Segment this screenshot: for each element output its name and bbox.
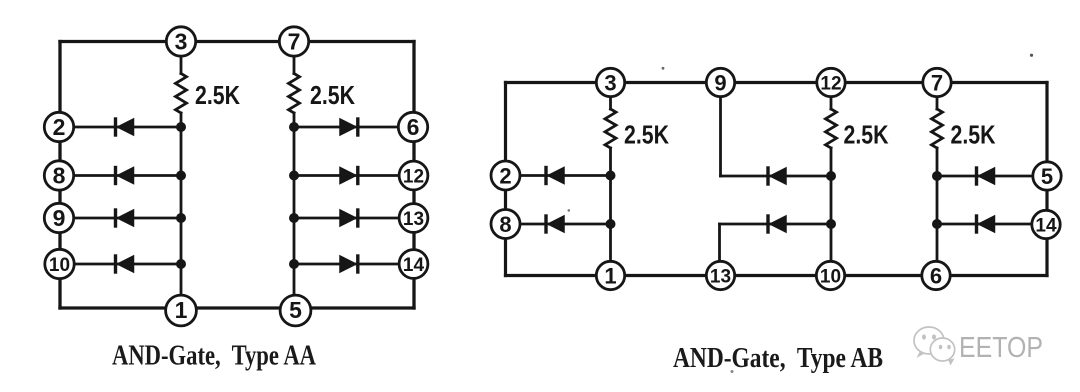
svg-text:3: 3: [175, 29, 188, 55]
wire: AA row pin13: [294, 217, 412, 220]
wire: AB row pin13: [720, 223, 832, 226]
wire: AA row pin2: [62, 126, 181, 129]
wire: AB row pin2: [507, 174, 611, 177]
svg-text:1: 1: [604, 264, 616, 289]
node pin 1 (AA): [166, 295, 197, 326]
svg-text:1: 1: [175, 297, 188, 323]
wire: AB bus pin7 to pin6: [936, 148, 939, 276]
node pin 14 (AA): [399, 250, 428, 279]
wire: AB row pin14: [937, 223, 1045, 226]
wire: AB left edge: [504, 83, 507, 276]
resistor 2.5K (AB left): [605, 109, 616, 148]
wire: AA row pin12: [294, 174, 412, 177]
resistor 2.5K (AA right): [289, 74, 300, 114]
diode input pin 5 (AB): [977, 168, 995, 184]
node pin 6 (AA): [398, 112, 427, 141]
diode input pin 8: [116, 168, 134, 184]
svg-text:2: 2: [53, 114, 66, 140]
node pin 5 (AB): [1033, 162, 1061, 190]
node pin 9 (AB): [706, 68, 734, 96]
svg-text:9: 9: [53, 205, 66, 231]
diode input pin 8 (AB): [546, 216, 564, 232]
svg-text:5: 5: [289, 297, 302, 323]
svg-text:AND-Gate, Type AB: AND-Gate, Type AB: [673, 343, 883, 374]
node pin 10 (AA): [45, 249, 74, 278]
svg-text:AND-Gate, Type AA: AND-Gate, Type AA: [112, 341, 317, 372]
scan speck top right: [1030, 54, 1033, 57]
diode input pin 12: [340, 168, 358, 184]
svg-text:10: 10: [820, 267, 841, 288]
diode input pin 9: [116, 210, 134, 226]
node pin 14 (AB): [1032, 210, 1060, 238]
diode input pin 14 (AB): [977, 216, 995, 232]
svg-text:8: 8: [499, 212, 511, 237]
watermark: EETOP wechat logo: [914, 327, 955, 366]
scan speck mid top: [662, 67, 665, 70]
wire: AA left edge: [58, 42, 61, 309]
svg-text:10: 10: [49, 255, 70, 276]
junction dots AA left bus: [176, 122, 186, 269]
wire: AB row pin5: [937, 175, 1045, 178]
svg-text:8: 8: [53, 163, 66, 189]
junction dots AA right bus: [289, 122, 299, 269]
node pin 12 (AB): [817, 68, 845, 96]
svg-text:6: 6: [407, 114, 420, 140]
wire: AB bus pin7 upper stub: [936, 83, 939, 110]
junction dots AB bus 12: [826, 171, 836, 229]
svg-text:EETOP: EETOP: [959, 332, 1043, 364]
wire: AA row pin8: [62, 174, 181, 177]
node pin 9 (AA): [44, 203, 73, 232]
diode input pin 2: [116, 119, 134, 135]
diode input pin 13: [340, 210, 358, 226]
wire: AB pin9 drop: [719, 83, 722, 177]
wire: AB right edge: [1045, 83, 1048, 276]
svg-text:14: 14: [403, 255, 425, 276]
wire: AA bus below right resistor to pin 5: [293, 113, 296, 308]
node pin 3 (AA): [166, 27, 195, 56]
wire: AB bus pin3 upper stub: [609, 83, 612, 110]
node pin 8 (AB): [491, 210, 520, 239]
node pin 7 (AB): [923, 68, 951, 96]
diode input pin 6: [340, 119, 358, 135]
wire: AA top rail: [60, 40, 414, 43]
svg-text:14: 14: [1035, 216, 1057, 237]
node pin 13 (AA): [399, 204, 428, 233]
svg-text:7: 7: [931, 71, 943, 96]
node pin 10 (AB): [816, 261, 844, 289]
svg-text:12: 12: [820, 74, 841, 95]
wire: AA bus below pin 7 (upper stub): [293, 42, 296, 74]
svg-text:3: 3: [604, 71, 616, 96]
wire: AB bus pin12 to pin10: [830, 148, 833, 276]
resistor 2.5K (AB middle): [826, 109, 837, 148]
diode input pin 9 (AB): [768, 168, 786, 184]
svg-text:6: 6: [930, 264, 942, 289]
node pin 2 (AB): [491, 161, 520, 190]
svg-text:7: 7: [288, 29, 301, 55]
resistor 2.5K (AB right): [932, 109, 943, 148]
node pin 8 (AA): [44, 161, 73, 190]
node pin 6 (AB): [922, 261, 950, 289]
svg-text:13: 13: [403, 209, 424, 230]
node pin 1 (AB): [596, 261, 624, 289]
diode input pin 13 (AB): [768, 216, 786, 232]
svg-text:2.5K: 2.5K: [310, 80, 355, 110]
wire: AA right edge: [412, 42, 415, 309]
node pin 12 (AA): [399, 161, 428, 190]
scan speck below AB caption: [731, 370, 734, 373]
wire: AA row pin14: [294, 263, 412, 266]
svg-text:2.5K: 2.5K: [195, 80, 240, 110]
svg-text:2.5K: 2.5K: [624, 120, 669, 150]
scan speck near AB pin8 row: [568, 209, 571, 212]
wire: AA row pin10: [62, 263, 181, 266]
svg-text:13: 13: [710, 267, 731, 288]
wire: AB bus pin12 upper stub: [830, 83, 833, 110]
svg-text:2.5K: 2.5K: [844, 120, 889, 150]
junction dots AB bus 3: [606, 171, 616, 230]
wire: AA bottom rail: [60, 306, 414, 309]
svg-text:5: 5: [1041, 164, 1053, 189]
node pin 7 (AA): [279, 27, 308, 56]
wire: AB bottom rail: [506, 274, 1048, 277]
wire: AA bus below pin 3 (upper stub): [180, 42, 183, 74]
wire: AB bus pin3 to pin1: [609, 148, 612, 276]
node pin 5 (AA): [280, 295, 311, 326]
node pin 3 (AB): [596, 68, 624, 96]
svg-text:2.5K: 2.5K: [951, 120, 996, 150]
svg-text:12: 12: [403, 167, 424, 188]
diode input pin 10: [116, 256, 134, 272]
diode input pin 2 (AB): [546, 168, 564, 184]
svg-text:9: 9: [714, 71, 726, 96]
wire: AA bus below left resistor to pin 1: [180, 113, 183, 308]
wire: AA row pin9: [62, 217, 181, 220]
wire: AB row pin9: [721, 175, 832, 178]
resistor 2.5K (AA left): [176, 74, 187, 114]
wire: AA row pin6: [294, 126, 412, 129]
wire: AB row pin8: [507, 223, 611, 226]
node pin 13 (AB): [706, 261, 734, 289]
svg-text:2: 2: [499, 164, 511, 189]
node pin 2 (AA): [44, 112, 73, 141]
diode input pin 14: [340, 256, 358, 272]
wire: AB top rail: [506, 81, 1048, 84]
junction dots AB bus 7: [932, 171, 942, 229]
wire: AB pin13 riser: [718, 224, 721, 276]
